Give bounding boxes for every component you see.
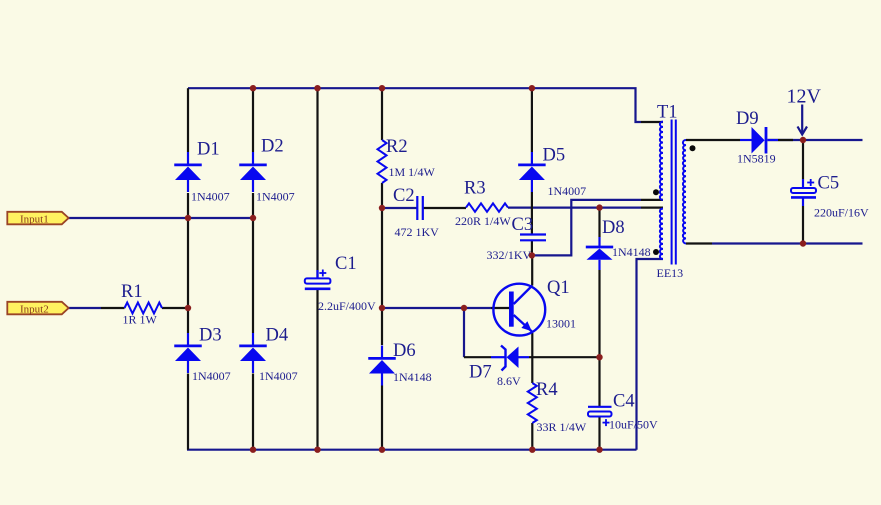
svg-text:R2: R2: [386, 137, 408, 157]
wire bottom bus: [187, 449, 637, 451]
svg-text:1N4007: 1N4007: [191, 190, 230, 204]
svg-text:1N4007: 1N4007: [259, 369, 298, 383]
wire column C1 upper: [316, 88, 318, 278]
capacitor C4: [588, 407, 612, 426]
wire R1 left pin: [101, 307, 125, 309]
transistor Q1: [493, 284, 545, 336]
wire D8 top pin: [598, 208, 600, 237]
diode D5: [518, 152, 546, 192]
svg-text:C3: C3: [512, 215, 534, 235]
junction R1/D3: [185, 305, 191, 311]
junction base/D7: [461, 305, 467, 311]
svg-text:220R 1/4W: 220R 1/4W: [455, 214, 511, 228]
wire D5 top pin: [531, 88, 533, 152]
T1 secondary polarity dot: [690, 145, 696, 151]
wire D7 to D8 column: [529, 356, 600, 358]
transformer T1 core: [672, 120, 676, 265]
diode D2: [239, 152, 267, 192]
junction D7/D8: [596, 354, 602, 360]
svg-text:C2: C2: [393, 186, 415, 206]
wire aux bottom riser: [637, 259, 664, 450]
wire C4 bottom pin: [598, 417, 600, 450]
junction Input1/D2: [250, 215, 256, 221]
capacitor C1: [305, 270, 331, 289]
wire T1 primary bottom pin: [641, 199, 663, 201]
svg-text:Input1: Input1: [20, 213, 49, 225]
wire T1 aux top pin: [641, 207, 663, 209]
svg-text:1R 1W: 1R 1W: [123, 313, 158, 327]
svg-text:1N4007: 1N4007: [548, 184, 587, 198]
wire R2 top pin: [381, 88, 383, 140]
svg-text:8.6V: 8.6V: [497, 374, 521, 388]
svg-text:1M 1/4W: 1M 1/4W: [389, 165, 436, 179]
T1 aux polarity dot: [653, 249, 659, 255]
svg-text:D3: D3: [199, 326, 222, 346]
transformer T1 aux winding: [660, 209, 663, 259]
svg-text:D7: D7: [469, 363, 492, 383]
capacitor C3: [520, 235, 546, 241]
junction top bus C1: [314, 85, 320, 91]
junction top bus D2: [250, 85, 256, 91]
wire secondary top to D9: [686, 139, 740, 141]
wire column D1-D3 middle: [187, 193, 189, 333]
capacitor C2: [417, 196, 423, 220]
resistor R2: [378, 140, 387, 183]
junction output/C5: [800, 137, 806, 143]
junction output return/C5: [800, 240, 806, 246]
svg-text:1N4148: 1N4148: [612, 245, 651, 259]
wire D6 lower: [381, 386, 383, 450]
diode D1: [174, 152, 202, 192]
svg-text:C4: C4: [613, 392, 635, 412]
port Input2: [7, 302, 68, 316]
svg-text:1N4007: 1N4007: [256, 190, 295, 204]
junction bottom bus C4: [596, 447, 602, 453]
wire D8 to C4: [598, 270, 600, 406]
svg-text:C1: C1: [335, 254, 357, 274]
wire secondary bottom pin: [686, 242, 712, 244]
wire Q1 emitter pin: [531, 333, 533, 383]
junction Input1/D1: [185, 215, 191, 221]
resistor R3: [466, 203, 508, 211]
svg-text:R4: R4: [536, 380, 558, 400]
svg-text:33R 1/4W: 33R 1/4W: [537, 420, 587, 434]
junction bottom bus R4: [529, 447, 535, 453]
svg-text:10uF/50V: 10uF/50V: [609, 418, 658, 432]
diode D6: [368, 346, 396, 386]
junction base/D6: [379, 305, 385, 311]
svg-text:D5: D5: [543, 146, 566, 166]
power 12V arrow: [798, 105, 808, 135]
diode D8: [586, 237, 613, 270]
T1 primary polarity dot: [653, 189, 659, 195]
junction bottom bus D4: [250, 447, 256, 453]
resistor R1: [125, 303, 163, 314]
svg-text:13001: 13001: [546, 317, 576, 331]
wire base pin: [491, 307, 509, 309]
svg-text:1N5819: 1N5819: [737, 152, 776, 166]
wire R3 to aux winding: [508, 207, 641, 209]
svg-text:D2: D2: [261, 137, 284, 157]
svg-text:472 1KV: 472 1KV: [395, 225, 440, 239]
svg-text:D8: D8: [602, 218, 625, 238]
junction D8 top: [596, 204, 602, 210]
diode D9: [740, 127, 778, 154]
junction top bus R2: [379, 85, 385, 91]
zener diode D7: [491, 346, 529, 371]
junction C3 bottom: [529, 252, 535, 258]
wire R4 bottom pin: [531, 423, 533, 450]
svg-text:T1: T1: [657, 103, 678, 123]
wire column D2-D4 middle: [252, 193, 254, 333]
diode D3: [174, 333, 202, 373]
wire C3 bottom jog to primary: [532, 200, 641, 256]
junction bottom bus C1: [314, 447, 320, 453]
wire column D2 upper: [252, 88, 254, 152]
diode D4: [239, 333, 267, 373]
wire column D4 lower: [252, 374, 254, 450]
resistor R4: [528, 383, 537, 423]
svg-text:Input2: Input2: [20, 303, 49, 315]
wire column D1 upper: [187, 88, 189, 152]
wire column C1 lower: [316, 290, 318, 450]
svg-text:C5: C5: [818, 174, 840, 194]
wire D9 to node: [768, 139, 794, 141]
svg-text:D1: D1: [197, 140, 220, 160]
svg-text:EE13: EE13: [657, 266, 684, 280]
wire C3 bottom pin: [531, 241, 533, 256]
wire D7 branch down: [463, 308, 465, 357]
transformer T1 secondary winding: [683, 140, 686, 244]
svg-text:12V: 12V: [787, 86, 822, 108]
svg-text:D9: D9: [736, 109, 759, 129]
svg-text:1N4007: 1N4007: [192, 369, 231, 383]
wire column D3 lower: [187, 374, 189, 450]
transformer T1 primary winding: [660, 122, 663, 200]
wire output bottom: [712, 242, 863, 244]
capacitor C5: [791, 179, 816, 206]
svg-text:2.2uF/400V: 2.2uF/400V: [318, 299, 376, 313]
wire R2 to D6: [381, 183, 383, 345]
wire C2 to R3: [423, 207, 466, 209]
junction bottom bus D6: [379, 447, 385, 453]
wire D7 branch across: [464, 356, 491, 358]
svg-text:1N4148: 1N4148: [393, 370, 432, 384]
wire Input2 stub: [69, 307, 102, 309]
svg-text:R3: R3: [464, 179, 486, 199]
svg-text:R1: R1: [121, 282, 143, 302]
wire C5 top pin: [802, 140, 804, 179]
svg-text:220uF/16V: 220uF/16V: [814, 206, 869, 220]
svg-text:332/1KV: 332/1KV: [487, 248, 532, 262]
svg-text:D4: D4: [266, 326, 289, 346]
svg-text:D6: D6: [393, 341, 416, 361]
wire top bus: [188, 88, 641, 122]
wire T1 primary top pin: [641, 121, 663, 123]
wire Input1 to bridge: [69, 217, 254, 219]
port Input1: [7, 212, 68, 226]
wire Q1 collector pin: [531, 255, 533, 285]
wire R1 right pin: [162, 307, 188, 309]
wire C5 bottom pin: [802, 206, 804, 244]
wire C2 node: [382, 207, 417, 209]
wire base net: [382, 307, 491, 309]
junction C2/R2: [379, 205, 385, 211]
wire D5 to C3: [531, 192, 533, 235]
svg-text:Q1: Q1: [547, 278, 570, 298]
wire output top: [778, 139, 863, 141]
junction top bus D5: [529, 85, 535, 91]
